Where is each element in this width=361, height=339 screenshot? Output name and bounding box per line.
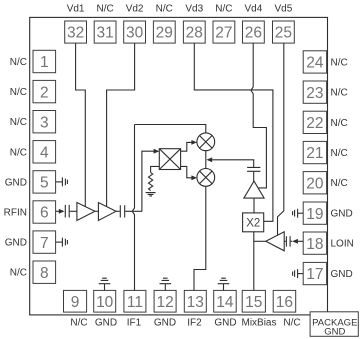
pin 28 [183,21,205,43]
svg-text:N/C: N/C [331,148,348,159]
svg-text:11: 11 [127,294,143,311]
svg-text:12: 12 [156,294,173,311]
svg-text:RFIN: RFIN [4,208,27,219]
arrow LOIN into chip [292,239,298,244]
svg-text:N/C: N/C [10,147,27,158]
pin 17 [303,262,326,284]
arrow LO into mixers [206,157,212,162]
capacitor C7 bypass pin19 [293,209,304,218]
pin 16 [273,290,296,312]
svg-text:10: 10 [96,294,114,311]
wire LO feed horizontal [212,160,254,167]
svg-text:N/C: N/C [10,117,27,128]
svg-text:25: 25 [275,25,292,42]
svg-text:N/C: N/C [10,268,27,279]
arrow RF input [59,209,65,214]
wire hybrid termination [151,166,160,172]
svg-text:IF2: IF2 [187,318,202,329]
svg-text:GND: GND [5,177,27,188]
pin 20 [303,172,326,194]
mixer M1 upper [197,133,215,151]
pin 10 [94,290,116,312]
svg-text:Vd3: Vd3 [185,4,203,15]
wire Vd4 pin26 to LO amp U3 bias (hop over Vd3 wire) [251,43,267,188]
svg-text:Vd5: Vd5 [275,4,293,15]
svg-text:3: 3 [40,114,49,131]
wire C2 to RF node [125,210,142,212]
pin 4 [33,141,56,163]
svg-text:14: 14 [216,294,234,311]
pin 13 [184,290,206,312]
svg-text:32: 32 [67,25,84,42]
pin 19 [303,202,326,224]
svg-text:1: 1 [40,54,49,71]
capacitor C1 RF input [65,205,69,218]
svg-text:N/C: N/C [331,178,348,189]
ground termination [146,193,156,196]
pin 21 [303,141,326,163]
capacitor C6 bypass pin7 [56,238,68,247]
wire U1 to U2 [95,210,99,212]
svg-text:24: 24 [306,55,324,72]
svg-text:N/C: N/C [96,4,113,15]
svg-text:22: 22 [306,115,323,132]
pin 18 [303,232,326,254]
wire U2 to C2 [116,210,120,212]
arrow into upper mixer [191,140,197,145]
capacitor C4 LO input [286,236,290,246]
wire IF2 lower mixer to pin13 [194,186,206,290]
pin 32 [65,21,87,43]
wire Vd2 pin30 to amp U2 bias [107,43,135,206]
svg-text:16: 16 [276,294,293,311]
wire hybrid upper output [181,142,192,151]
svg-text:Vd4: Vd4 [245,4,263,15]
wire Vd5 pin25 to LO buffer U4 bias [278,43,284,235]
wire IF1 top run to upper mixer [135,125,206,133]
pin 1 [33,50,56,72]
pin 23 [303,81,326,103]
svg-text:GND: GND [95,318,117,329]
svg-text:N/C: N/C [215,4,232,15]
svg-text:9: 9 [71,294,80,311]
pin 15 [242,290,265,312]
wire C1 to amp U1 [70,210,77,212]
ground pin14 [218,278,230,290]
svg-text:N/C: N/C [10,57,27,68]
pin 6 [33,201,56,223]
wire U4 to C4 [284,240,286,242]
svg-text:N/C: N/C [331,57,348,68]
svg-text:MixBias: MixBias [241,318,276,329]
svg-text:28: 28 [186,25,203,42]
pin 25 [273,21,295,43]
pin 29 [153,21,175,43]
svg-text:LOIN: LOIN [331,239,354,250]
svg-text:6: 6 [40,205,49,222]
arrow into hybrid [154,149,160,154]
svg-text:17: 17 [306,266,323,283]
pin 7 [33,231,56,253]
wire RFIN pin6 stub [56,210,60,212]
wire X2 bottom to MixBias pin15 [253,232,255,291]
capacitor C8 bypass pin17 [293,269,304,278]
wire C3 to buffer amp [253,172,255,181]
package outline [30,17,328,315]
capacitor C3 LO coupling [247,167,260,171]
pin 26 [243,21,265,43]
svg-text:Vd1: Vd1 [67,4,85,15]
svg-text:GND: GND [331,269,353,280]
wire U5 to X2 [253,198,255,213]
svg-text:N/C: N/C [156,4,173,15]
capacitor C2 RF coupling [120,205,124,217]
pin 11 [124,290,146,312]
capacitor C5 bypass pin5 [56,177,68,186]
pin 8 [33,261,56,283]
svg-text:N/C: N/C [70,318,87,329]
resistor R1 termination zigzag [149,172,153,190]
wire RF node up to hybrid input [142,151,154,211]
pin 5 [33,171,56,193]
svg-text:13: 13 [187,294,204,311]
svg-text:5: 5 [40,175,49,192]
wire hybrid lower output [181,166,192,177]
svg-text:20: 20 [306,175,324,192]
wire IF1 vertical (hop over RF wire) [132,125,134,291]
pin 14 [214,290,237,312]
pin 12 [154,290,176,312]
pin 9 [64,290,87,312]
svg-text:IF1: IF1 [127,318,142,329]
svg-text:8: 8 [40,265,49,282]
pin 30 [124,21,146,43]
svg-text:18: 18 [306,236,323,253]
svg-text:26: 26 [245,25,262,42]
hybrid coupler [159,149,180,170]
svg-text:N/C: N/C [10,87,27,98]
svg-text:2: 2 [40,84,49,101]
wire LOIN pin18 [291,240,304,242]
svg-text:N/C: N/C [331,88,348,99]
svg-text:23: 23 [306,85,323,102]
svg-text:N/C: N/C [331,118,348,129]
wire junction to LO amp tip [254,240,266,242]
PACKAGE GND box [310,312,358,338]
svg-text:GND: GND [5,238,27,249]
svg-text:GND: GND [214,318,236,329]
svg-text:4: 4 [40,145,49,162]
mixer M2 lower [197,169,215,187]
svg-text:27: 27 [215,25,232,42]
op-amp U2 RF amp [98,203,116,221]
svg-text:GND: GND [324,327,345,338]
svg-text:21: 21 [306,145,323,162]
pin 3 [33,111,56,133]
svg-text:Vd2: Vd2 [126,4,144,15]
frequency doubler X2 [243,213,264,232]
wire Vd1 pin32 to amp U1 bias [76,43,86,206]
svg-text:GND: GND [331,209,353,220]
svg-text:15: 15 [245,294,262,311]
pin 24 [303,51,326,73]
pin 22 [303,111,326,133]
ground pin10 [99,278,111,290]
pin 2 [33,80,56,102]
svg-text:N/C: N/C [283,318,300,329]
svg-text:29: 29 [156,25,173,42]
pin 31 [94,21,116,43]
wire Vd3 pin28 to X2 doubler bias [194,43,273,221]
svg-text:19: 19 [306,206,323,223]
svg-text:X2: X2 [246,218,260,230]
op-amp U5 doubler output amp [244,181,264,198]
svg-text:31: 31 [96,25,113,42]
arrow into lower mixer [191,175,197,180]
op-amp U1 RF amp [77,203,95,221]
svg-text:7: 7 [40,235,49,252]
wire between mixers LO node [205,151,207,169]
op-amp U4 LO input amp [266,232,284,251]
svg-text:30: 30 [126,25,144,42]
pin 27 [213,21,235,43]
svg-text:GND: GND [154,318,176,329]
ground pin12 [160,278,172,290]
